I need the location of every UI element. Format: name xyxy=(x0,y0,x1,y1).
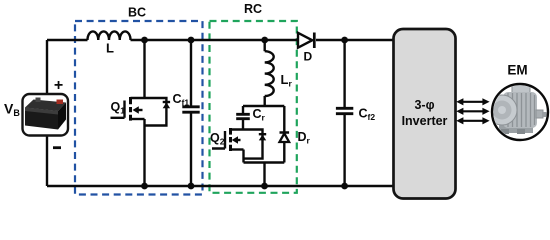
3-phase inverter block U1 xyxy=(394,29,456,199)
diode D xyxy=(298,33,314,49)
wire: inverter-EM arrow 3 xyxy=(456,117,489,124)
transistor Q1 (MOSFET with body diode) xyxy=(111,97,171,126)
node: Cf2 junction on bottom rail xyxy=(341,183,348,190)
capacitor Cf1 xyxy=(182,40,199,186)
wire: left vertical (battery branch) xyxy=(46,40,48,186)
wire: top rail left segment xyxy=(47,39,88,41)
svg-text:L: L xyxy=(106,41,114,56)
wire: Q1 drain vertical xyxy=(143,40,145,98)
svg-text:+: + xyxy=(54,77,63,94)
node: Q1 drain junction on top rail xyxy=(141,37,148,44)
wire: Lr bottom stub xyxy=(264,96,266,106)
wire: resonant cell top wire xyxy=(243,105,284,107)
node: Lr junction on top rail xyxy=(261,37,268,44)
svg-text:D: D xyxy=(304,50,313,64)
node: Q2 branch junction on bottom rail xyxy=(261,183,268,190)
wire: drop to bottom rail xyxy=(263,163,265,187)
node: Cf1 junction on top rail xyxy=(188,37,195,44)
capacitor Cr xyxy=(236,106,250,130)
wire: inverter-EM arrow 2 xyxy=(456,108,489,115)
RC dashed boundary box xyxy=(210,21,297,193)
node: Cf2 junction on top rail xyxy=(341,37,348,44)
capacitor Cf2 xyxy=(336,40,353,186)
node: Q1 source junction on bottom rail xyxy=(141,183,148,190)
BC dashed boundary box xyxy=(75,21,203,195)
electric machine EM (motor icon in circle) xyxy=(487,82,548,141)
transistor Q2 (MOSFET with body diode) xyxy=(212,128,266,159)
battery VB icon box xyxy=(23,94,69,136)
minus terminal label xyxy=(53,146,61,149)
wire: Q2 source vertical xyxy=(242,150,244,163)
svg-text:RC: RC xyxy=(244,2,262,16)
wire: top rail middle segment xyxy=(131,39,299,41)
inductor Lr (vertical) xyxy=(265,51,274,96)
svg-text:3-φ: 3-φ xyxy=(414,98,434,112)
diode Dr branch wire xyxy=(283,106,285,163)
svg-text:Inverter: Inverter xyxy=(402,114,448,128)
wire: resonant cell bottom wire xyxy=(244,161,285,163)
svg-text:EM: EM xyxy=(507,63,527,78)
wire: inverter-EM arrow 1 xyxy=(456,98,489,105)
wire: Q1 source vertical to bottom rail xyxy=(143,119,145,186)
svg-text:BC: BC xyxy=(128,6,146,20)
diode Dr xyxy=(280,133,290,143)
wire: bottom rail xyxy=(47,185,394,187)
inductor L xyxy=(88,31,131,40)
wire: top rail right segment xyxy=(316,39,394,41)
node: Cf1 junction on bottom rail xyxy=(188,183,195,190)
wire: Lr top stub xyxy=(264,40,266,51)
